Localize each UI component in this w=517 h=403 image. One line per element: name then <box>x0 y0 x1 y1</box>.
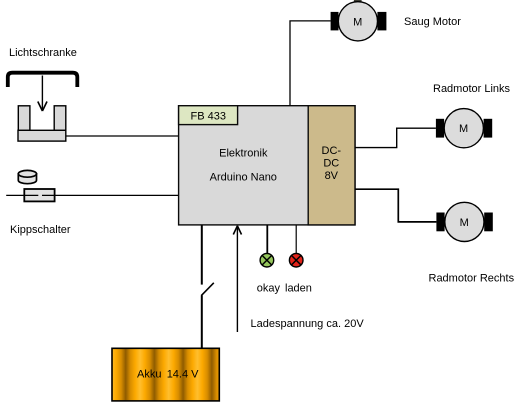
kippschalter knob (cylinder) <box>18 170 36 183</box>
svg-text:Arduino Nano: Arduino Nano <box>210 171 277 183</box>
wire kippschalter to box <box>42 194 179 196</box>
svg-text:Lichtschranke: Lichtschranke <box>9 47 77 59</box>
wire box to radmotor links <box>355 128 436 147</box>
svg-text:DC-: DC- <box>322 145 342 157</box>
motor M1 Saug Motor <box>331 0 387 41</box>
svg-text:Ladespannung ca. 20V: Ladespannung ca. 20V <box>251 318 365 330</box>
wire saug motor to box top <box>290 21 331 106</box>
wire box to LED red <box>295 225 297 254</box>
wire switch to battery <box>201 295 203 348</box>
svg-text:FB 433: FB 433 <box>191 111 226 123</box>
bracket (light barrier top) <box>8 73 78 87</box>
wire kippschalter left stub <box>6 194 38 196</box>
kippschalter body <box>24 189 54 201</box>
svg-text:Radmotor Rechts: Radmotor Rechts <box>429 273 515 285</box>
wire box to LED green <box>266 225 268 254</box>
wire box to switch <box>201 225 203 284</box>
light barrier sensor (U shape) <box>18 106 66 141</box>
svg-text:M: M <box>353 16 362 28</box>
svg-text:14.4 V: 14.4 V <box>167 369 199 381</box>
LED green (okay) <box>260 253 274 267</box>
label okay laden <box>257 283 312 295</box>
svg-text:M: M <box>460 217 469 229</box>
motor M2 Radmotor Links <box>436 109 492 148</box>
arrow Ladespannung into box <box>233 226 241 332</box>
switch S1 (main power) <box>201 283 214 296</box>
svg-text:Elektronik: Elektronik <box>219 147 268 159</box>
battery Akku 14.4V <box>112 348 219 401</box>
wire box to radmotor rechts <box>355 189 436 222</box>
svg-text:okay: okay <box>257 283 281 295</box>
svg-text:Radmotor Links: Radmotor Links <box>433 83 511 95</box>
box Elektronik / Arduino Nano <box>179 106 355 225</box>
svg-text:M: M <box>459 123 468 135</box>
svg-text:8V: 8V <box>325 170 339 182</box>
svg-text:Akku: Akku <box>137 369 161 381</box>
label DC-DC 8V <box>322 145 342 182</box>
motor M3 Radmotor Rechts <box>436 202 492 241</box>
svg-text:Saug Motor: Saug Motor <box>404 16 461 28</box>
svg-text:DC: DC <box>323 158 339 170</box>
wire light barrier to box <box>66 135 179 137</box>
arrow into light barrier <box>38 76 47 112</box>
module FB 433 <box>179 106 238 125</box>
svg-text:Kippschalter: Kippschalter <box>10 224 71 236</box>
DC-DC converter strip <box>308 106 355 225</box>
LED red (laden) <box>289 253 303 267</box>
svg-text:laden: laden <box>285 283 312 295</box>
